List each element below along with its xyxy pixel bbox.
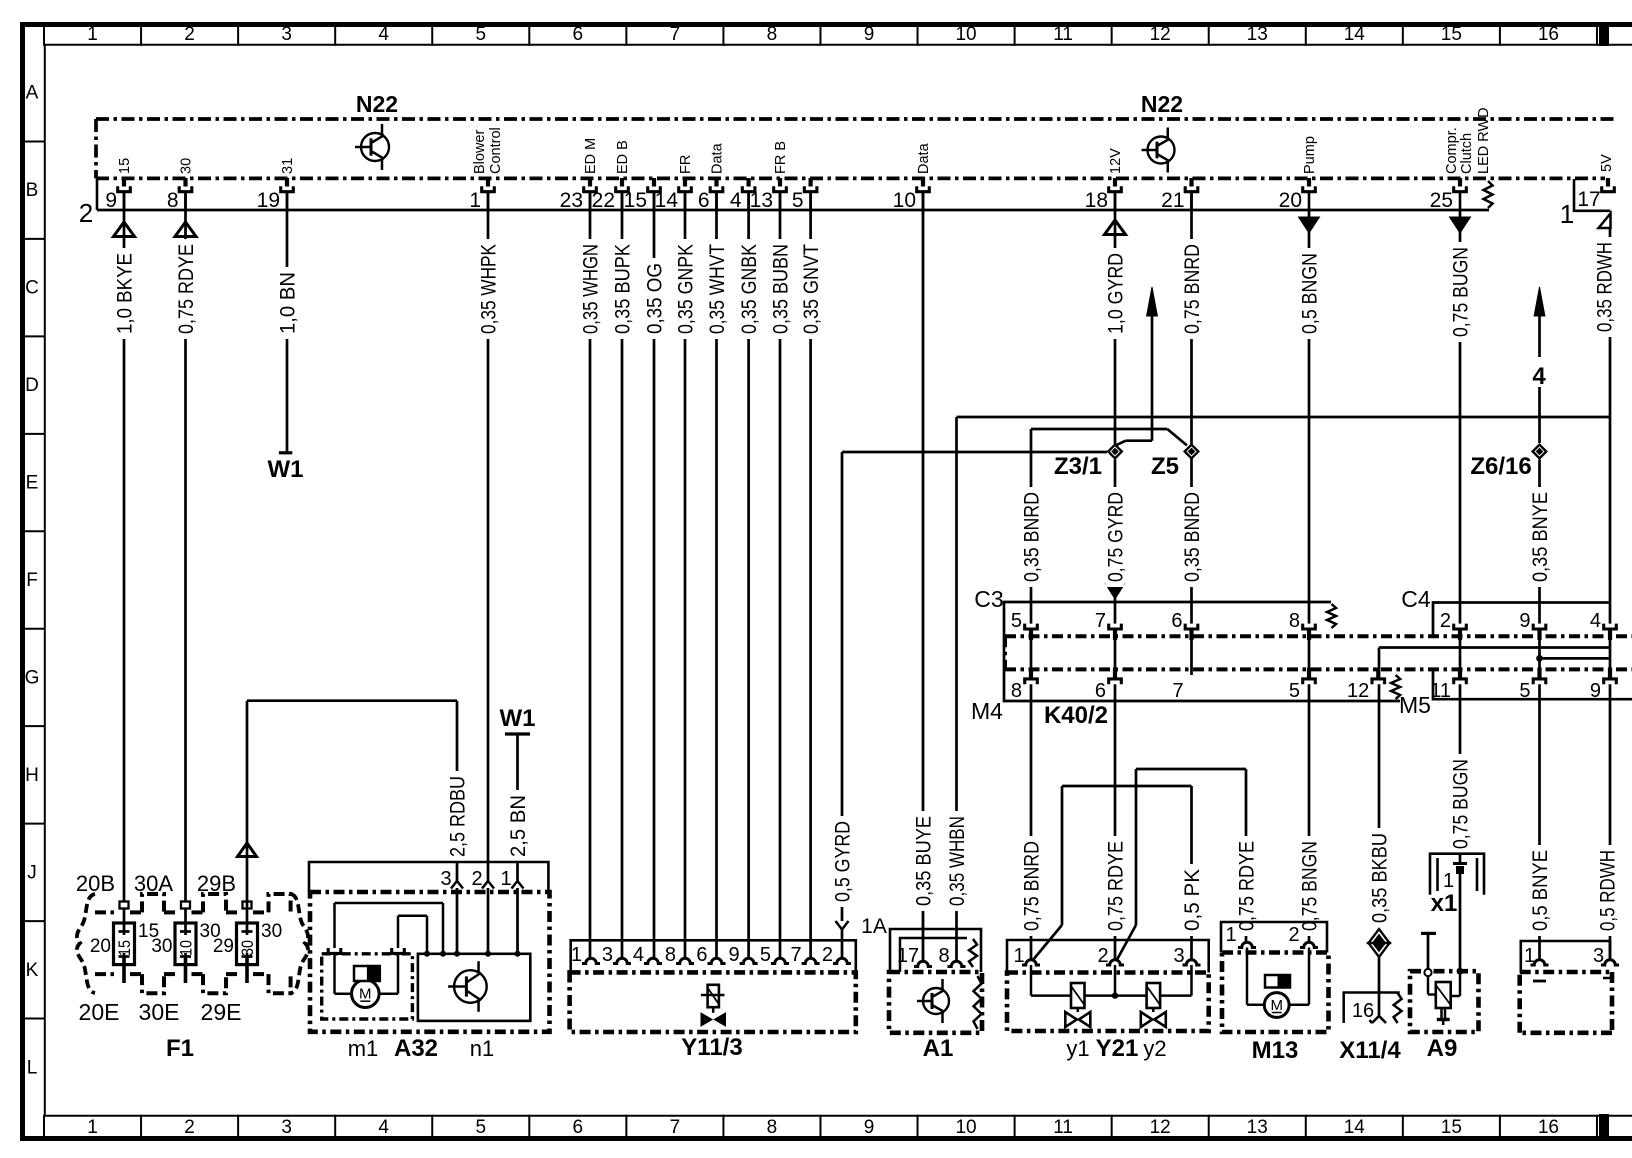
fuse F1/3 pin square [243,902,252,909]
N22 pin 14 [683,178,687,187]
svg-text:15: 15 [117,158,133,174]
wire 0,75 BNGN from M4 pin 5 to M13 pin 2 [1308,684,1311,943]
Y21 dash-dot box [1007,973,1209,1032]
K40/2 C3 pin 7 [1109,624,1122,629]
svg-text:Y21: Y21 [1096,1035,1139,1062]
A1 connector shell [890,929,981,972]
svg-text:A: A [26,83,39,104]
solenoid valve inside A9 [1436,982,1451,1008]
svg-text:9: 9 [1590,680,1601,702]
transistor inside A1 [923,988,949,1014]
svg-text:9: 9 [1519,610,1530,632]
svg-text:4: 4 [633,944,644,966]
blower box pin 3 [1601,960,1619,965]
Y11/3 pin 2 [833,958,851,963]
wire label 0,5 GYRD [833,816,852,907]
N22 pin 23 [588,178,592,187]
svg-text:1,0 BN: 1,0 BN [277,272,300,334]
svg-text:29B: 29B [197,871,236,896]
svg-text:0,35 BKBU: 0,35 BKBU [1369,833,1392,923]
thermal protector in m1 [354,966,380,981]
Y11/3 dash-dot box [570,972,856,1032]
svg-text:30: 30 [261,921,282,942]
sleeve arrow on BKYE wire [114,222,135,237]
svg-text:9: 9 [105,189,117,212]
svg-text:x1: x1 [1431,890,1458,917]
svg-text:0,35 OG: 0,35 OG [644,263,667,334]
sleeve arrow on RDBU wire [238,843,257,857]
svg-text:10: 10 [178,940,196,956]
K40/2 M4 pin 6 [1109,679,1122,684]
wire label 0,75 BNGN low [1300,836,1319,936]
svg-text:5: 5 [760,944,771,966]
svg-text:K40/2: K40/2 [1044,702,1108,729]
stub inside blower box pin 3 [1603,977,1612,980]
sleeve arrow on RDYE wire [175,222,196,237]
wire label 0,75 BUGN low [1451,754,1470,854]
svg-text:M5: M5 [1399,692,1431,718]
svg-text:1: 1 [1013,945,1024,967]
svg-text:30: 30 [151,936,172,957]
wire from x1 pin into A9 [1459,874,1462,970]
K40/2 M4 pin 8 [1025,679,1038,684]
K40/2 M4 pin 12 [1372,679,1385,684]
fuse box F1 outline top [95,910,118,914]
svg-text:m1: m1 [348,1036,379,1061]
svg-text:30: 30 [239,940,257,956]
Y11/3 pin 4 [644,958,662,963]
svg-text:1: 1 [1443,870,1454,892]
A32 internal wire m1 to n1 left [333,903,336,948]
svg-text:L: L [27,1057,38,1078]
svg-text:D: D [25,375,39,396]
off-page wire with up arrow at col 12 [1147,287,1158,316]
A1 dash-dot box [889,972,982,1033]
wire 0,35 WHGN from N22 to Y11/3 [589,192,592,959]
svg-text:A9: A9 [1427,1035,1458,1062]
svg-text:5: 5 [792,189,804,212]
transistor symbol inside N22 left [361,133,389,161]
svg-text:N22: N22 [1141,91,1183,117]
svg-text:B: B [26,180,39,201]
N22 pin 10 [921,178,925,187]
A32 dash-dot box [310,892,550,1032]
svg-text:30E: 30E [139,999,180,1025]
wire 0,35 BNRD from splice Z5 to C3 pin 5 [1031,428,1167,431]
N22 pin 4 [746,178,750,187]
wire 0,75 RDYE from N22 pin 8 to fuse F1/30 [184,192,187,902]
K40/2 C4 pin 9 [1533,624,1546,629]
svg-text:29: 29 [213,936,234,957]
svg-text:1: 1 [1560,199,1574,229]
svg-text:5: 5 [475,1117,486,1138]
A32 connector shell [309,862,548,892]
svg-text:4: 4 [378,24,389,45]
svg-text:5V: 5V [1599,154,1615,172]
svg-text:2: 2 [1440,610,1451,632]
A9 internal wires [1427,976,1430,995]
svg-text:3: 3 [1173,945,1184,967]
solenoid valve y1 [1071,983,1085,1008]
N22 pin 1 [486,178,490,187]
N22 pin 21 [1189,178,1193,187]
x1 pin terminal [1453,862,1467,865]
svg-text:10: 10 [893,189,916,212]
n1 box [418,954,530,1021]
wire label 0,35 BNRD left [1022,487,1041,587]
svg-text:F: F [26,570,38,591]
svg-text:15: 15 [1441,24,1462,45]
svg-text:2: 2 [1097,945,1108,967]
wire 1,0 GYRD from N22 pin 18 to splice Z3/1 [1114,192,1117,444]
svg-text:5: 5 [1011,610,1022,632]
wire label 0,35 BUBN [771,239,790,339]
svg-text:F1: F1 [166,1035,194,1062]
wire label 2,5 RDBU [448,771,467,862]
wire label 0,35 WHBN [947,811,966,911]
svg-text:23: 23 [560,189,583,212]
M13 internal wires [1246,948,1249,1005]
arrow down on BUGN wire [1450,217,1471,233]
connector 1 bracket with pin 17 [1574,179,1610,211]
svg-text:15: 15 [1441,1117,1462,1138]
svg-text:14: 14 [1344,1117,1366,1138]
svg-text:31: 31 [280,158,296,174]
svg-text:0,5 BNYE: 0,5 BNYE [1529,850,1552,931]
svg-text:0,35 BUPK: 0,35 BUPK [612,244,635,334]
wire label 0,5 RDWH [1598,845,1617,936]
svg-text:ED M: ED M [583,138,599,174]
svg-text:ED B: ED B [615,140,631,174]
M13 connector shell [1221,922,1327,953]
wire label 0,35 OG [645,258,664,339]
svg-text:0,75 RDYE: 0,75 RDYE [1236,841,1259,931]
fuse F1/3 body [237,923,258,965]
svg-text:10: 10 [955,1117,976,1138]
A9 stub with terminal bar [1421,932,1436,935]
svg-text:Control: Control [488,127,504,174]
wire label 0,75 RDYE [176,239,195,339]
wire inside K40/2 RDWH with branch H1 [1609,639,1612,668]
svg-text:6: 6 [1095,680,1106,702]
N22 pin 13 [778,178,782,187]
wire 0,75 BNRD from M4 pin 8 to Y21 pin 1 [1030,684,1033,960]
svg-text:4: 4 [730,189,742,212]
svg-text:4: 4 [1590,610,1601,632]
motor M13 [1264,993,1289,1018]
svg-text:0,75 BUGN: 0,75 BUGN [1450,247,1473,337]
wire 0,75 BNRD from N22 pin 21 to splice Z5 [1190,192,1193,445]
Y11/3 pin 7 [802,958,820,963]
wire 0,5 RDWH from M5 pin 9 to blower box pin 3 [1609,684,1612,960]
svg-text:Z6/16: Z6/16 [1470,453,1531,480]
K40/2 M5 pin 5 [1533,679,1546,684]
svg-text:11: 11 [1430,680,1451,702]
K40/2 M4 pin 5 [1303,679,1316,684]
wire label 0,75 RDYE jumper [1237,836,1256,936]
svg-text:M: M [359,986,372,1003]
N22 pin 8 [183,178,187,187]
wire 0,35 BUPK from N22 to Y11/3 [621,192,624,959]
transistor n1 [454,970,487,1003]
svg-text:3: 3 [602,944,613,966]
Y11/3 pin 6 [708,958,726,963]
zigzag end of C3 line [1327,604,1336,628]
svg-text:16: 16 [1352,1000,1374,1022]
svg-text:0,35 WHVT: 0,35 WHVT [706,244,729,334]
svg-text:1A: 1A [861,915,887,938]
svg-text:0,35 WHPK: 0,35 WHPK [478,244,501,334]
svg-text:17: 17 [897,945,919,967]
svg-text:8: 8 [1011,680,1022,702]
wire 0,35 WHPK from N22 pin 1 to A32 pin 2 [487,192,490,881]
svg-text:0,35 BUYE: 0,35 BUYE [913,816,936,906]
svg-text:1,0 BKYE: 1,0 BKYE [114,253,137,334]
wire 2,5 RDBU from fuse F1/29 to A32 pin 3 [246,843,249,909]
svg-text:13: 13 [750,189,773,212]
wire label 0,5 BNGN [1300,248,1319,339]
wire 1,0 BKYE from N22 pin 9 to fuse F1/20 [123,192,126,902]
svg-text:C4: C4 [1401,586,1431,612]
splice Z6/16 [1533,445,1547,459]
svg-text:6: 6 [698,189,710,212]
svg-text:3: 3 [440,868,451,890]
wire label 0,35 GNBK [739,239,758,339]
A32 pin 3 [451,881,463,889]
open arrow 1A on GYRD wire [836,921,849,930]
svg-text:8: 8 [1289,610,1300,632]
X11/4 terminal fork [1372,1016,1379,1023]
control unit N22 dash-dot box top edge [96,117,1615,121]
svg-text:20: 20 [1279,189,1302,212]
m1 pin sockets [328,948,341,953]
K40/2 C4 pin 2 [1454,624,1467,629]
svg-text:Y11/3: Y11/3 [681,1034,742,1061]
wire from splice Z5 down to C3 pin 6 [1190,458,1193,624]
svg-text:1: 1 [87,24,98,45]
svg-text:11: 11 [1053,24,1073,45]
zigzag at right end of bus 2 [1484,181,1493,208]
svg-text:y2: y2 [1143,1036,1166,1061]
A32 internal wire m1 to n1 right [397,916,400,948]
wire label 1,0 BN [278,267,297,339]
svg-text:7: 7 [790,944,801,966]
zigzag end of M4 line [1391,675,1400,699]
connector M5 bracket [1433,669,1632,699]
open arrow below pin 17 [1599,214,1611,229]
svg-text:0,5 PK: 0,5 PK [1181,869,1204,931]
svg-text:10: 10 [955,24,976,45]
svg-text:22: 22 [592,189,615,212]
svg-text:0,75 RDYE: 0,75 RDYE [175,244,198,334]
svg-text:y1: y1 [1066,1036,1089,1061]
wire 0,75 GYRD from splice Z3/1 to C3 pin 7 [1114,460,1117,624]
svg-text:0,35 BNRD: 0,35 BNRD [1021,492,1044,582]
svg-text:A1: A1 [923,1035,954,1062]
svg-text:7: 7 [1095,610,1106,632]
svg-text:0,35 GNBK: 0,35 GNBK [738,244,761,334]
wire 0,75 BUGN from M5 pin 11 to connector x1 [1459,684,1462,863]
svg-text:FR B: FR B [773,141,789,174]
svg-text:25: 25 [1430,189,1453,212]
svg-text:13: 13 [1247,1117,1268,1138]
wire label 0,35 RDWH [1595,237,1614,337]
transistor symbol inside N22 right [1148,137,1175,164]
fuse box F1 right brace [291,894,308,993]
svg-text:1: 1 [1225,924,1236,946]
splice Z3/1 [1108,445,1122,459]
svg-text:17: 17 [1577,188,1600,211]
connector C4 bracket [1433,603,1610,637]
M13 pin 2 [1300,942,1318,947]
svg-text:E: E [26,473,39,494]
N22 pin 6 [714,178,718,187]
wire 0,35 OG from N22 to Y11/3 [653,192,656,959]
svg-text:6: 6 [1171,610,1182,632]
svg-text:6: 6 [573,24,584,45]
svg-text:0,75 RDYE: 0,75 RDYE [1105,841,1128,931]
wire 0,35 BUBN from N22 to Y11/3 [779,192,782,959]
svg-text:W1: W1 [500,705,536,732]
wire label 0,35 BKBU [1370,828,1389,928]
wire inside K40/2 col 15 [1459,639,1462,668]
svg-text:0,35 WHBN: 0,35 WHBN [946,816,969,906]
arrow down on GYRD wire above C3 [1106,584,1125,599]
svg-text:8: 8 [767,1117,778,1138]
svg-text:0,5 RDWH: 0,5 RDWH [1597,850,1620,931]
m1 internal wires [333,953,336,993]
svg-text:7: 7 [670,24,681,45]
n1 top edge junction dots [454,951,460,957]
solenoid valve y2 [1147,983,1161,1008]
svg-text:7: 7 [670,1117,681,1138]
minus terminal inside blower box [1533,980,1546,983]
wire inside K40/2 col 13 [1308,639,1311,668]
svg-text:Data: Data [916,142,932,174]
svg-text:6: 6 [573,1117,584,1138]
svg-text:n1: n1 [470,1036,494,1061]
svg-text:19: 19 [257,189,280,212]
svg-text:15: 15 [116,940,134,956]
zigzag inside A1 [974,976,982,1029]
wire 0,75 RDYE from M4 pin 6 to Y21 pin 2 [1114,684,1117,960]
svg-text:1: 1 [469,189,481,212]
svg-text:1: 1 [571,944,582,966]
svg-text:0,35 RDWH: 0,35 RDWH [1594,242,1617,332]
control unit N22 dash-dot box bottom edge [96,177,1605,181]
svg-text:8: 8 [665,944,676,966]
ground point W1 top [279,451,292,454]
svg-text:12V: 12V [1108,148,1124,174]
sleeve arrow on GYRD wire [1105,220,1126,235]
svg-text:13: 13 [1247,24,1268,45]
fuse box F1 left brace [77,894,95,993]
A32 pin 1 [512,881,524,889]
svg-text:12: 12 [1150,24,1171,45]
off-page wire 4 with up arrow [1534,287,1545,316]
wire label 0,5 PK [1182,864,1201,936]
svg-text:A32: A32 [394,1035,438,1062]
svg-text:2,5 BN: 2,5 BN [507,795,530,857]
blower box dash-dot box [1520,972,1612,1033]
svg-text:W1: W1 [268,456,304,483]
svg-text:0,35 BNRD: 0,35 BNRD [1181,492,1204,582]
svg-text:15: 15 [624,189,647,212]
svg-text:30: 30 [179,158,195,174]
splice Z5 [1185,445,1199,459]
svg-text:0,35 BNYE: 0,35 BNYE [1529,492,1552,582]
wire 0,35 BKBU from M5 pin 12 to connector X11/4 [1378,684,1381,928]
N22 pin 20 [1307,178,1311,187]
svg-text:2: 2 [184,1117,195,1138]
svg-text:14: 14 [1344,24,1366,45]
svg-text:0,35 BUBN: 0,35 BUBN [770,244,793,334]
blower box pin 1 [1531,960,1549,965]
M13 pin 1 [1238,942,1256,947]
svg-text:X11/4: X11/4 [1339,1037,1401,1064]
wire label 0,75 RDYE low [1106,836,1125,936]
svg-text:9: 9 [864,1117,875,1138]
Y21 pin 3 [1183,960,1201,965]
wire 0,5 GYRD from splice Z3/1 to Y11/3 pin 2 [842,451,1107,454]
svg-text:16: 16 [1538,1117,1559,1138]
svg-text:0,75 BNRD: 0,75 BNRD [1181,244,1204,334]
svg-text:18: 18 [1085,189,1108,212]
wire 0,5 BNYE from M5 pin 5 to blower box pin 1 [1538,684,1541,960]
wire inside K40/2 BNYE with branch [1538,639,1541,668]
svg-text:11: 11 [1053,1117,1073,1138]
wire label 0,35 BUYE [914,811,933,911]
svg-text:2,5 RDBU: 2,5 RDBU [447,776,470,857]
wire 2,5 BN from W1 to A32 pin 1 [516,734,519,881]
svg-text:Z3/1: Z3/1 [1054,453,1102,480]
svg-text:20B: 20B [76,871,115,896]
svg-text:20: 20 [90,936,111,957]
M13 dash-dot box [1222,953,1329,1033]
wire label 0,5 BNYE [1530,845,1549,936]
A9 junction dot [1457,968,1464,975]
Y11/3 pin 1 [582,958,600,963]
svg-text:0,75 BUGN: 0,75 BUGN [1450,759,1473,849]
K40/2 M5 pin 9 [1604,679,1617,684]
m1 dash-dot box [322,954,413,1019]
arrow down on BNGN wire [1299,217,1320,233]
svg-text:2: 2 [1288,924,1299,946]
Y11/3 valve symbol [708,985,719,1007]
svg-text:Clutch: Clutch [1459,133,1475,174]
svg-text:8: 8 [767,24,778,45]
connector symbol X11/4 [1369,929,1390,943]
Y21 pin 1 [1022,960,1040,965]
svg-text:Pump: Pump [1302,136,1318,174]
wire label 0,35 GNVT [801,239,820,339]
svg-text:3: 3 [1593,945,1604,967]
svg-text:LED RWD: LED RWD [1476,107,1492,174]
svg-text:2: 2 [184,24,195,45]
N22 pin 25 [1458,178,1462,187]
wire 0,75 RDYE jumper from Y21 pin 2 to M13 pin 1 [1136,768,1246,771]
wire 0,35 GNBK from N22 to Y11/3 [747,192,750,959]
svg-text:5: 5 [1519,680,1530,702]
svg-text:0,75 BNGN: 0,75 BNGN [1299,841,1322,931]
svg-text:1: 1 [87,1117,98,1138]
svg-text:FR: FR [678,155,694,174]
wire label 2,5 BN [508,790,527,862]
Y11/3 pin 3 [613,958,631,963]
svg-text:0,5 GYRD: 0,5 GYRD [832,821,855,902]
wire label 0,35 WHGN [581,239,600,339]
svg-text:G: G [25,667,40,688]
